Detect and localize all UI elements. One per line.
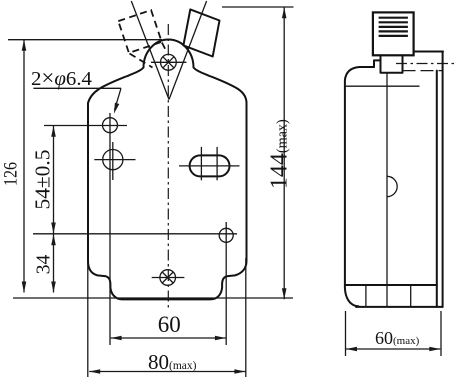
side center vertical line [386,73,388,285]
bottom extension line [13,297,293,299]
side back right edge [442,52,444,307]
dimension 34 line [51,234,56,292]
vertical centerline of front view [167,24,169,308]
dashed lever arm segment [130,54,153,68]
dimension 54+-0.5 line [51,126,56,234]
terminal strip [345,285,443,307]
side stem [381,55,403,73]
lever arm line left (dashed position centerline / V-notch left edge) [131,1,169,100]
80 extension lines [87,262,89,377]
front view body outline [88,40,247,300]
side roller box [373,12,414,55]
svg-text:34: 34 [34,255,55,275]
svg-text:2×φ6.4: 2×φ6.4 [31,65,92,90]
60(max) extension lines [345,311,347,356]
screw head (bottom center) [152,270,185,286]
svg-text:54±0.5: 54±0.5 [31,150,55,210]
hole A (upper phi6.4) [44,118,127,133]
svg-text:126: 126 [0,162,21,186]
dimension 60(max) line [346,347,440,352]
top extension line (dome top, for 126) [8,39,162,41]
roller (dashed alternate position) [118,10,161,53]
side seam line [345,85,420,87]
dimension 144(max) line [282,7,287,299]
side semicircle detail [387,176,397,196]
oval slot hole [179,147,240,180]
dimension 126 line [22,40,27,293]
side body outline top-left [345,67,374,306]
roller hatch lines [379,18,408,36]
roller (solid position) [183,9,219,56]
side horizontal centerline [396,63,458,65]
label 144(max) [266,119,292,189]
pivot circle with cross [151,54,186,70]
hole C (right phi6.4) [219,228,233,242]
side right step lines [403,70,444,72]
extension line through hole C (for 54/34) [33,233,237,235]
top extension line for 144 [222,6,294,8]
extension line through hole C down to 60 dim [225,222,227,345]
hole B (larger) [94,142,135,180]
side step block [374,60,381,67]
leader 2x phi6.4 [33,88,121,114]
dimension 60 line [111,336,226,341]
side face right edge [436,71,438,307]
dashed lever arm segment 2 [162,43,167,52]
lever arm line right (solid position centerline / V-notch right edge) [169,1,207,100]
dimension 80(max) line [89,369,245,374]
extension line through hole A down to 60 dim [109,113,111,345]
svg-text:60: 60 [158,312,181,337]
